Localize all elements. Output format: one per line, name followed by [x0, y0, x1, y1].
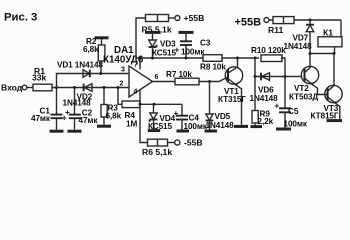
resistor R9 — [252, 111, 258, 124]
wire R3 top stub — [103, 88, 105, 105]
ground (R9) — [251, 125, 263, 128]
ground (VT3 emitter) — [327, 119, 343, 122]
svg-text:VD1 1N4148: VD1 1N4148 — [57, 61, 103, 70]
ground (R3) — [97, 125, 111, 128]
wire VT2 base node down to C5 — [284, 77, 286, 109]
resistor R4 — [122, 101, 140, 108]
wire C4 top stub — [181, 104, 183, 115]
wire R2 bottom to pin 3 line — [100, 61, 102, 74]
svg-text:1N4148: 1N4148 — [63, 99, 92, 108]
VT2 emitter diagonal — [305, 79, 314, 86]
resistor R10 — [261, 55, 282, 62]
capacitor C5 — [279, 107, 291, 109]
wire K1 stub to tie line — [334, 47, 336, 54]
svg-text:2,2k: 2,2k — [258, 117, 274, 126]
VT3 emitter diagonal — [328, 97, 337, 104]
ground (C1) — [50, 130, 64, 133]
junction VT1 collector tap — [236, 57, 239, 60]
resistor R6 — [148, 139, 168, 146]
junction VD3 tap — [151, 57, 154, 60]
svg-text:R7 10k: R7 10k — [166, 70, 192, 79]
svg-text:100мк: 100мк — [284, 120, 308, 129]
wire VD7 top stub — [309, 20, 311, 25]
relay K1 coil box — [318, 37, 342, 47]
VT2 emitter arrow — [310, 82, 314, 86]
diode VD5 — [206, 114, 213, 120]
svg-text:6,8k: 6,8k — [83, 45, 99, 54]
transistor Q3 VT3 circle — [325, 85, 342, 102]
svg-text:6,8k: 6,8k — [106, 111, 122, 120]
wire R9 bottom stub — [254, 123, 256, 125]
svg-text:VD5: VD5 — [215, 112, 231, 121]
wire collector tie line VT2-VT3 — [310, 53, 334, 55]
ground (C5) — [276, 128, 291, 131]
ground (VD4) — [148, 129, 160, 132]
wire VD5 bottom stub — [209, 121, 211, 130]
VT3 emitter arrow — [334, 101, 338, 105]
svg-text:100мк: 100мк — [181, 48, 205, 57]
wire VT2 emitter to VT3 base — [314, 86, 328, 95]
junction VD7 tap — [309, 19, 312, 22]
svg-text:100мк: 100мк — [184, 122, 208, 131]
wire C1 top stub — [56, 88, 58, 115]
svg-text:C5: C5 — [288, 107, 299, 116]
ground (C3 top) — [179, 31, 194, 34]
wire VT3 collector up to tie line — [328, 54, 334, 91]
capacitor C2 — [69, 114, 81, 116]
svg-text:47мк: 47мк — [79, 116, 99, 125]
ground (VD5) — [205, 130, 218, 133]
diode VD2 — [83, 84, 85, 92]
junction pin 4 / R6 feed — [139, 103, 142, 106]
wire rail R8 to R10 — [222, 57, 259, 59]
ground (C4) — [177, 130, 190, 133]
wire C3 bottom stub — [185, 45, 187, 58]
VT2 collector diagonal — [305, 67, 311, 73]
wire VD5 top stub — [209, 82, 211, 115]
wire C4 bottom stub — [181, 120, 183, 130]
capacitor C1 — [51, 114, 63, 116]
svg-text:Вход: Вход — [1, 83, 23, 93]
wire op-amp output pin 6 to R7 — [153, 81, 176, 83]
wire feedback from pin 2 down to R4 — [118, 88, 122, 105]
wire main input line R1 to op-amp pin 2 — [52, 87, 129, 89]
resistor R1 — [33, 84, 52, 91]
svg-text:R6 5,1k: R6 5,1k — [142, 147, 172, 157]
junction R3 tap — [103, 86, 106, 89]
resistor R11 — [273, 17, 294, 24]
VT1 emitter arrow — [235, 83, 239, 87]
junction C2 tap — [73, 86, 76, 89]
wire pin 7 to positive rail — [139, 58, 141, 69]
diode VD7 — [306, 24, 314, 26]
VT2 base bar — [304, 69, 306, 82]
svg-text:47мк: 47мк — [31, 114, 51, 123]
wire VD4 top stub — [153, 104, 155, 113]
wire VD1 branch to op-amp pin 3 — [57, 74, 130, 88]
wire C2 top stub — [74, 88, 76, 115]
capacitor C4 — [176, 115, 188, 117]
svg-text:КС515: КС515 — [152, 49, 177, 58]
svg-text:+: + — [65, 108, 70, 117]
svg-text:4: 4 — [134, 89, 138, 96]
svg-text:КТ503Д: КТ503Д — [289, 93, 318, 102]
junction R9/VD6 column tap — [254, 57, 257, 60]
junction tie line left — [309, 52, 312, 55]
terminal +55В circle (left) — [175, 16, 180, 21]
capacitor C3 — [180, 40, 192, 42]
junction C3 tap — [185, 57, 188, 60]
wire C2 bottom stub — [74, 118, 76, 129]
svg-text:КТ315Г: КТ315Г — [218, 95, 246, 104]
ground (R2 top) — [95, 36, 109, 39]
VT1 emitter diagonal — [229, 79, 239, 87]
junction node A (input / C1 / VD1) — [55, 86, 58, 89]
wire R2 top to ground — [101, 39, 103, 45]
VT1 base bar — [227, 70, 229, 83]
zener VD3 — [149, 40, 157, 47]
svg-text:C3: C3 — [200, 39, 211, 48]
svg-text:R10 120k: R10 120k — [251, 46, 286, 55]
svg-text:1M: 1M — [126, 120, 137, 129]
wire VD3 top stub — [152, 32, 154, 40]
transistor Q1 VT1 circle — [225, 67, 242, 84]
svg-text:6: 6 — [155, 74, 159, 81]
svg-text:КС515: КС515 — [148, 122, 173, 131]
op-amp U1 DA1 triangle — [129, 66, 153, 97]
diode VD6 — [260, 73, 262, 81]
VT1 collector diagonal — [229, 67, 238, 73]
resistor R7 — [175, 78, 199, 85]
wire VT1 collector to rail — [237, 58, 239, 67]
resistor R5 — [146, 15, 169, 22]
svg-text:7: 7 — [134, 62, 138, 69]
wire VD3 bottom stub — [152, 47, 154, 58]
wire R5 to +55V terminal — [169, 17, 175, 19]
terminal -55В circle — [175, 140, 180, 145]
resistor R8 — [203, 55, 222, 62]
svg-text:R8 10k: R8 10k — [200, 63, 226, 72]
ground (VT1 emitter) — [234, 125, 248, 128]
svg-text:+: + — [174, 109, 179, 118]
diode VD1 — [83, 70, 90, 78]
svg-text:3: 3 — [121, 67, 125, 74]
svg-text:33k: 33k — [32, 73, 47, 83]
wire VD6 line to VT2 base — [255, 76, 301, 78]
input terminal circle — [22, 85, 27, 90]
svg-text:Рис. 3: Рис. 3 — [4, 12, 37, 24]
resistor R2 — [98, 45, 105, 61]
svg-text:2: 2 — [120, 81, 124, 88]
wire rail down through VD6 node to R9 — [254, 58, 256, 111]
VT3 base bar — [327, 88, 329, 101]
wire R11 to K1 corner — [294, 19, 341, 21]
svg-text:1N4148: 1N4148 — [206, 121, 235, 130]
wire R6 to -55V terminal — [168, 142, 175, 144]
wire R7 to VT1 base — [199, 77, 228, 82]
wire VD4 bottom stub — [153, 120, 155, 130]
wire VD7 anode down to VT2 collector — [309, 32, 311, 67]
junction VD4 tap — [153, 103, 156, 106]
resistor R3 — [101, 105, 107, 118]
svg-text:+: + — [175, 46, 180, 55]
zener VD4 — [150, 113, 157, 119]
wire terminal to R11 — [269, 19, 273, 21]
svg-text:+: + — [275, 102, 280, 111]
svg-text:+55В: +55В — [184, 13, 205, 23]
wire C5 bottom stub — [284, 112, 286, 128]
junction pin 7 tap — [139, 57, 142, 60]
wire VT3 emitter to ground — [337, 105, 340, 119]
svg-text:КТ815Г: КТ815Г — [311, 112, 339, 121]
wire R3 bottom stub — [103, 117, 105, 125]
svg-text:-55В: -55В — [184, 138, 203, 148]
svg-text:R11: R11 — [268, 25, 284, 35]
wire R10 right end down to VD6 line — [281, 58, 285, 77]
wire positive supply rail — [136, 57, 203, 59]
junction tie line right — [333, 52, 336, 55]
junction R2 tap — [99, 72, 102, 75]
terminal +55В circle (right) — [264, 18, 269, 23]
wire negative supply rail — [140, 103, 182, 105]
wire negative rail down to R6 — [140, 104, 148, 142]
svg-text:+55В: +55В — [235, 17, 262, 29]
ground (VD3 top) — [145, 31, 160, 34]
svg-text:1N4148: 1N4148 — [284, 42, 313, 51]
svg-text:К1: К1 — [323, 27, 333, 37]
wire C3 top stub — [185, 32, 187, 41]
junction VD6 right node — [284, 75, 287, 78]
transistor Q2 VT2 circle — [301, 66, 318, 83]
junction VD6 left node — [254, 75, 257, 78]
wire +55V feed down to rail — [136, 18, 146, 58]
wire C1 bottom stub — [56, 118, 58, 129]
wire +55V line down to K1 — [340, 20, 342, 37]
wire input terminal to R1 — [27, 87, 33, 89]
wire VT1 emitter to ground — [239, 87, 242, 125]
junction R4 feedback tap — [117, 86, 120, 89]
wire pin 4 to negative rail — [139, 90, 141, 104]
junction VD5 tap — [208, 80, 211, 83]
ground (C2) — [68, 130, 82, 133]
